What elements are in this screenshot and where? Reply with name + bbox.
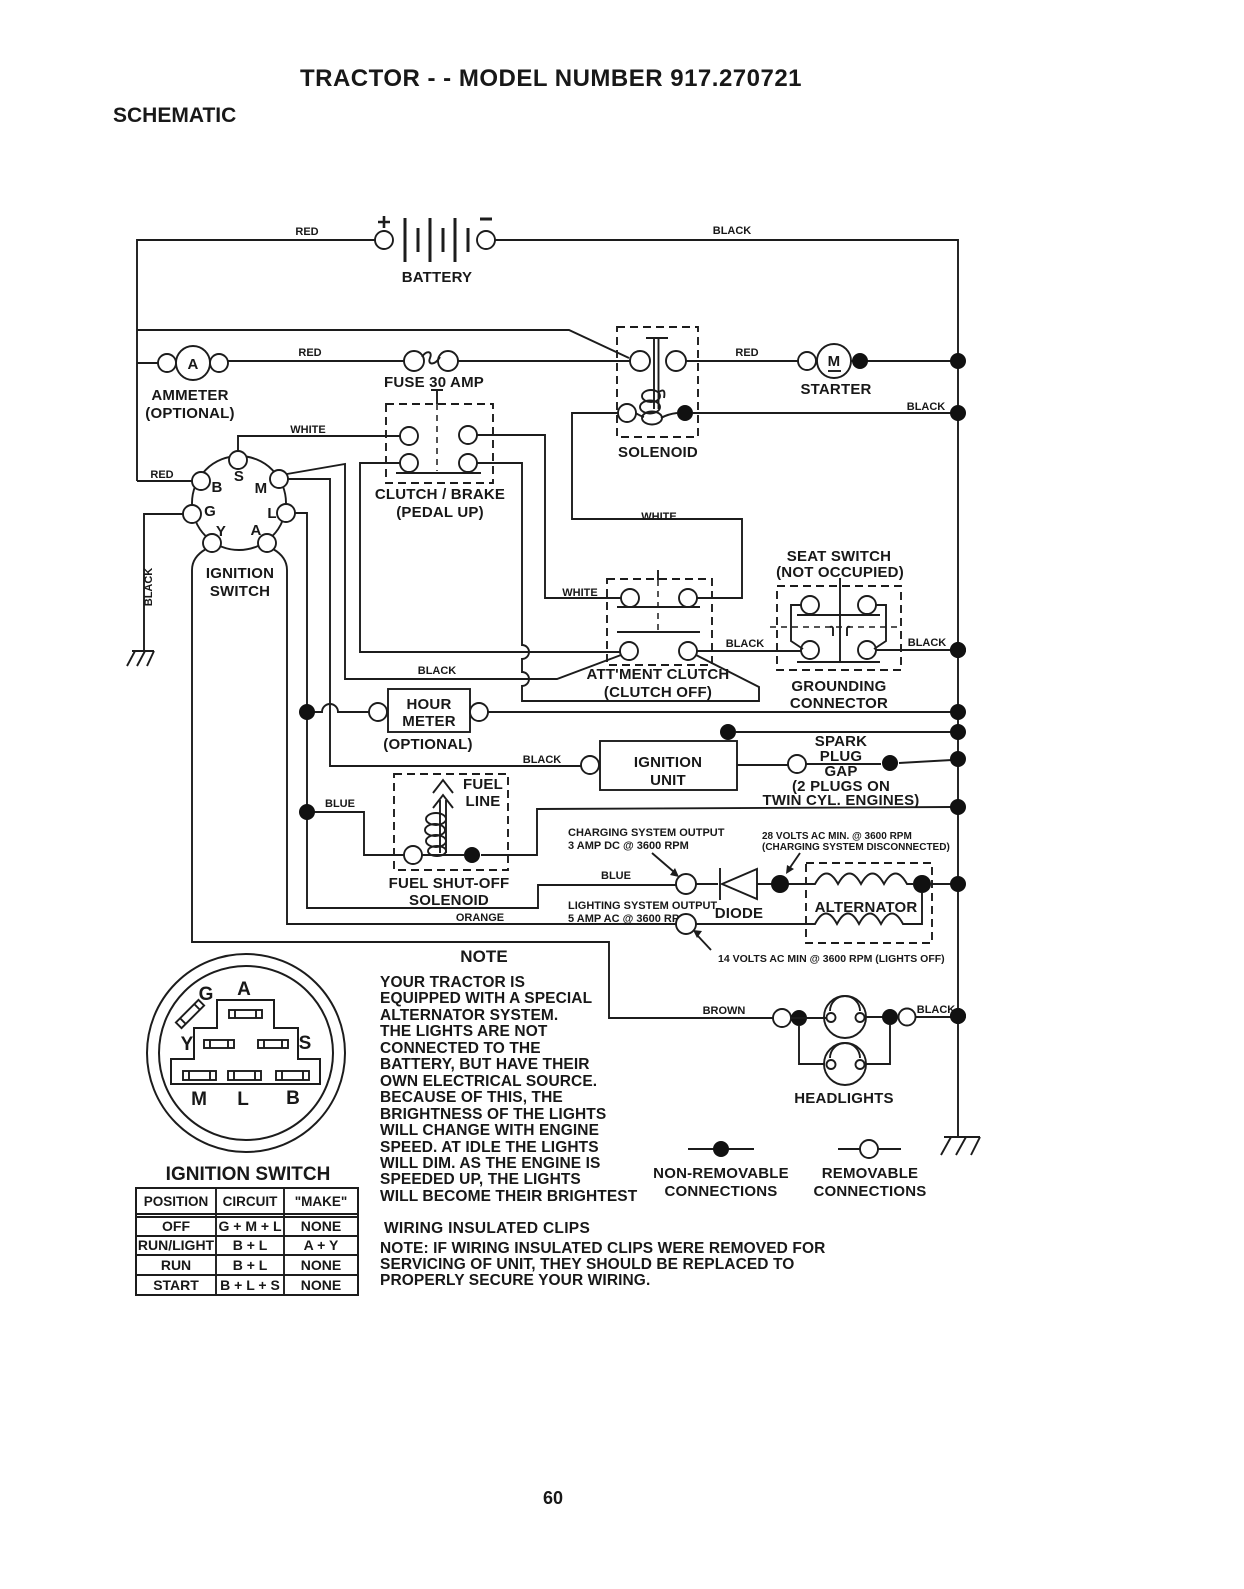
connector pin Y xyxy=(204,1040,234,1048)
svg-text:WHITE: WHITE xyxy=(562,587,597,599)
svg-text:NONE: NONE xyxy=(301,1277,341,1293)
connector pin G (slanted) xyxy=(176,1000,204,1028)
node seat switch to bus (non-removable) xyxy=(950,642,966,658)
svg-text:NOTE: NOTE xyxy=(460,947,508,966)
attment clutch contacts xyxy=(617,589,700,660)
wire battery negative BLACK to right bus and down to ground xyxy=(495,240,958,1136)
ground (right bus) xyxy=(941,1137,980,1155)
ground (ignition switch G) xyxy=(127,651,154,666)
table row RUN/LIGHT xyxy=(138,1237,339,1253)
svg-text:BLACK: BLACK xyxy=(523,754,562,766)
svg-text:OFF: OFF xyxy=(162,1218,190,1234)
note text block xyxy=(380,947,638,1205)
svg-text:START: START xyxy=(153,1277,199,1293)
svg-text:ALTERNATOR SYSTEM.: ALTERNATOR SYSTEM. xyxy=(380,1007,558,1024)
seat switch S3 dashed enclosure xyxy=(777,586,901,670)
starter motor M1 xyxy=(798,344,851,378)
svg-text:B + L: B + L xyxy=(233,1257,268,1273)
svg-text:A: A xyxy=(187,356,198,373)
svg-text:M: M xyxy=(191,1089,207,1110)
label SEAT SWITCH (NOT OCCUPIED) xyxy=(776,548,904,581)
svg-text:(OPTIONAL): (OPTIONAL) xyxy=(145,405,235,422)
svg-text:BLACK: BLACK xyxy=(713,225,752,237)
svg-text:A: A xyxy=(237,979,251,1000)
label SPARK PLUG GAP (2 PLUGS ON TWIN CYL. ENGINES) xyxy=(763,733,920,809)
wire charging output through diode to alternator (BLUE) xyxy=(695,883,812,885)
svg-text:SERVICING OF UNIT, THEY SHOULD: SERVICING OF UNIT, THEY SHOULD BE REPLAC… xyxy=(380,1256,794,1273)
label GROUNDING CONNECTOR xyxy=(790,678,888,712)
node right bus at hour meter (non-removable) xyxy=(950,704,966,720)
svg-text:G + M + L: G + M + L xyxy=(218,1218,281,1234)
fuel line dashed enclosure xyxy=(394,774,508,870)
wire headlight top left xyxy=(791,1017,827,1019)
headlight return terminal (removable) xyxy=(899,1009,916,1026)
svg-text:YOUR TRACTOR IS: YOUR TRACTOR IS xyxy=(380,974,525,991)
svg-text:BLUE: BLUE xyxy=(325,798,355,810)
wire alternator to right bus xyxy=(931,883,952,885)
svg-text:NONE: NONE xyxy=(301,1218,341,1234)
wire headlight lamp 2 branch xyxy=(799,1025,890,1064)
label FUEL LINE xyxy=(463,776,503,810)
headlight lamp 1 xyxy=(824,996,866,1038)
svg-text:RED: RED xyxy=(295,226,318,238)
svg-text:WILL BECOME THEIR BRIGHTEST: WILL BECOME THEIR BRIGHTEST xyxy=(380,1188,638,1205)
svg-text:BLACK: BLACK xyxy=(143,568,155,607)
wire clutch/brake top-right to attment clutch top-left (WHITE) xyxy=(477,435,621,598)
table row START xyxy=(153,1277,341,1293)
svg-text:A + Y: A + Y xyxy=(304,1237,339,1253)
svg-text:WHITE: WHITE xyxy=(641,511,676,523)
svg-text:28 VOLTS AC MIN. @ 3600 RPM: 28 VOLTS AC MIN. @ 3600 RPM xyxy=(762,831,912,842)
connector pin A xyxy=(229,1010,262,1018)
ignition unit U1 xyxy=(581,741,737,790)
wire clutch/brake bottom-right loop around attment clutch (with crossover hops) xyxy=(477,463,759,701)
svg-text:"MAKE": "MAKE" xyxy=(295,1194,348,1209)
svg-text:ATT'MENT CLUTCH: ATT'MENT CLUTCH xyxy=(587,666,730,683)
wire blue tap to fuel shut-off solenoid (BLUE) xyxy=(307,812,404,855)
wire ignition G terminal to ground (BLACK) xyxy=(144,514,183,652)
svg-text:CLUTCH / BRAKE: CLUTCH / BRAKE xyxy=(375,486,505,503)
svg-text:BATTERY, BUT HAVE THEIR: BATTERY, BUT HAVE THEIR xyxy=(380,1056,590,1073)
svg-text:CHARGING SYSTEM OUTPUT: CHARGING SYSTEM OUTPUT xyxy=(568,827,725,839)
label ATT'MENT CLUTCH (CLUTCH OFF) xyxy=(587,666,730,701)
ignition switch terminal M xyxy=(270,470,288,488)
svg-text:TWIN CYL. ENGINES): TWIN CYL. ENGINES) xyxy=(763,792,920,809)
charging output terminal (removable) xyxy=(676,874,696,894)
clutch/brake contacts xyxy=(396,426,481,473)
node right bus at headlights (non-removable) xyxy=(950,1008,966,1024)
wire lighting output into alternator (ORANGE) xyxy=(695,923,813,925)
ignition switch terminal Y xyxy=(203,534,221,552)
headlight feed terminal (removable) xyxy=(773,1009,791,1027)
ammeter A1 (optional) xyxy=(158,346,228,380)
svg-text:EQUIPPED WITH A SPECIAL: EQUIPPED WITH A SPECIAL xyxy=(380,990,592,1007)
wire solenoid to starter (RED) xyxy=(685,360,952,362)
table row OFF xyxy=(162,1218,341,1234)
label CHARGING SYSTEM OUTPUT 3 AMP DC @ 3600 RPM xyxy=(568,827,725,852)
solenoid coil xyxy=(634,390,677,425)
fuel solenoid left terminal (removable) xyxy=(404,846,422,864)
alternator charging winding xyxy=(808,874,913,885)
solenoid K1 dashed enclosure xyxy=(617,327,698,437)
ignition switch terminal letters xyxy=(204,468,277,540)
wire seat switch to right bus (BLACK) xyxy=(876,649,952,651)
node right bus at starter (non-removable) xyxy=(950,353,966,369)
node right bus at fuel output (non-removable) xyxy=(950,799,966,815)
alternator G1 dashed enclosure xyxy=(806,863,932,943)
node spark plug (non-removable) xyxy=(882,755,898,771)
ignition switch terminal L xyxy=(277,504,295,522)
wire solenoid coil output to right bus (BLACK) xyxy=(693,412,952,414)
wire headlight top right xyxy=(866,1016,900,1018)
seat switch left link xyxy=(791,605,803,649)
svg-text:HEADLIGHTS: HEADLIGHTS xyxy=(794,1090,894,1107)
wire battery positive RED loop (left, down, across to solenoid) xyxy=(137,240,629,481)
svg-text:IGNITION: IGNITION xyxy=(634,754,702,771)
svg-text:SCHEMATIC: SCHEMATIC xyxy=(113,104,236,127)
svg-text:(NOT OCCUPIED): (NOT OCCUPIED) xyxy=(776,564,904,581)
node right bus at ignition unit (non-removable) xyxy=(950,724,966,740)
label AMMETER (OPTIONAL) xyxy=(145,387,235,422)
svg-text:PROPERLY SECURE YOUR WIRING.: PROPERLY SECURE YOUR WIRING. xyxy=(380,1272,650,1289)
connector pin B xyxy=(276,1071,309,1080)
battery minus sign xyxy=(480,218,492,221)
svg-text:BLACK: BLACK xyxy=(917,1004,956,1016)
fuel line arrow xyxy=(433,780,453,808)
svg-text:SPEEDED UP, THE LIGHTS: SPEEDED UP, THE LIGHTS xyxy=(380,1171,581,1188)
node starter to bus (non-removable) xyxy=(852,353,868,369)
hour meter P1 (optional) xyxy=(369,689,488,732)
battery positive terminal xyxy=(375,231,393,249)
node right bus at seat switch (non-removable) xyxy=(950,642,966,658)
wire headlight to bus (BLACK) xyxy=(916,1016,952,1018)
svg-text:METER: METER xyxy=(402,713,456,730)
connector pin S xyxy=(258,1040,288,1048)
svg-text:THE LIGHTS ARE NOT: THE LIGHTS ARE NOT xyxy=(380,1023,548,1040)
node right bus at spark plug (non-removable) xyxy=(950,751,966,767)
wire ignition unit to spark plug gap xyxy=(737,760,952,765)
battery negative terminal xyxy=(477,231,495,249)
svg-text:BLACK: BLACK xyxy=(418,665,457,677)
fuel pipe xyxy=(422,800,464,855)
svg-text:LINE: LINE xyxy=(466,793,501,810)
svg-text:NOTE: IF WIRING INSULATED CLIP: NOTE: IF WIRING INSULATED CLIPS WERE REM… xyxy=(380,1240,825,1257)
svg-text:RUN: RUN xyxy=(161,1257,191,1273)
svg-text:RED: RED xyxy=(150,469,173,481)
ignition switch S1 body xyxy=(192,456,286,550)
svg-text:GROUNDING: GROUNDING xyxy=(791,678,886,695)
svg-text:Y: Y xyxy=(181,1034,194,1055)
ignition switch terminal B xyxy=(192,472,210,490)
lighting output terminal (removable) xyxy=(676,914,696,934)
svg-text:ALTERNATOR: ALTERNATOR xyxy=(815,899,918,916)
node ignition unit top (non-removable) xyxy=(720,724,736,740)
svg-text:UNIT: UNIT xyxy=(650,772,686,789)
label FUEL SHUT-OFF SOLENOID xyxy=(389,875,510,909)
alternator lighting winding xyxy=(811,893,922,924)
wire ammeter to fuse to solenoid (RED) xyxy=(228,360,630,362)
svg-text:BLUE: BLUE xyxy=(601,870,631,882)
svg-text:NONE: NONE xyxy=(301,1257,341,1273)
svg-text:IGNITION: IGNITION xyxy=(206,565,274,582)
wire ammeter branch from red bus xyxy=(137,362,158,364)
battery plus sign xyxy=(378,216,390,228)
spark plug gap terminal (removable) xyxy=(788,755,806,773)
svg-text:BECAUSE OF THIS, THE: BECAUSE OF THIS, THE xyxy=(380,1089,563,1106)
node right bus at alternator (non-removable) xyxy=(950,876,966,892)
svg-text:BLACK: BLACK xyxy=(907,401,946,413)
svg-text:DIODE: DIODE xyxy=(715,905,764,922)
svg-text:IGNITION SWITCH: IGNITION SWITCH xyxy=(166,1164,331,1185)
svg-text:FUEL: FUEL xyxy=(463,776,503,793)
wire attment clutch bottom-right to seat switch (BLACK) xyxy=(697,650,801,652)
wire ignition M terminal diagonal to attment clutch bottom-left (BLACK) xyxy=(287,464,621,679)
solenoid coil left terminal xyxy=(618,404,636,422)
label IGNITION SWITCH (schematic) xyxy=(206,565,274,600)
diode D1 xyxy=(720,868,757,900)
label CLUTCH / BRAKE (PEDAL UP) xyxy=(375,486,505,521)
svg-text:WIRING INSULATED CLIPS: WIRING INSULATED CLIPS xyxy=(384,1220,590,1237)
svg-text:L: L xyxy=(267,505,276,522)
svg-text:FUEL SHUT-OFF: FUEL SHUT-OFF xyxy=(389,875,510,892)
attment clutch actuator stem xyxy=(657,570,659,580)
svg-text:BROWN: BROWN xyxy=(703,1005,746,1017)
svg-text:G: G xyxy=(199,984,214,1005)
attment clutch center divider xyxy=(657,580,659,632)
node right bus at solenoid output (non-removable) xyxy=(950,405,966,421)
svg-text:BLACK: BLACK xyxy=(908,637,947,649)
svg-text:M: M xyxy=(255,480,268,497)
arrow charging output xyxy=(652,853,679,877)
ignition switch connector key outline xyxy=(171,1000,320,1084)
connector pin M xyxy=(183,1071,216,1080)
ignition switch terminal S xyxy=(229,451,247,469)
svg-text:WILL DIM. AS THE ENGINE IS: WILL DIM. AS THE ENGINE IS xyxy=(380,1155,600,1172)
node headlight right (non-removable) xyxy=(882,1009,898,1025)
wire hour meter to right bus xyxy=(488,711,952,713)
node fuel solenoid output (non-removable) xyxy=(464,847,480,863)
svg-text:CONNECTIONS: CONNECTIONS xyxy=(813,1183,926,1200)
svg-text:SOLENOID: SOLENOID xyxy=(618,444,698,461)
wiring insulated clips note xyxy=(380,1240,825,1289)
ignition switch terminal G xyxy=(183,505,201,523)
table header row xyxy=(144,1194,348,1209)
svg-text:RED: RED xyxy=(735,347,758,359)
node diode output (non-removable) xyxy=(771,875,789,893)
ignition switch connector outer ring xyxy=(147,954,345,1152)
label REMOVABLE CONNECTIONS xyxy=(813,1165,926,1200)
solenoid coil output node (non-removable) xyxy=(677,405,693,421)
svg-text:S: S xyxy=(234,468,244,485)
svg-text:(CLUTCH OFF): (CLUTCH OFF) xyxy=(604,684,712,701)
wire ignition Y terminal to headlights (BROWN) xyxy=(192,549,773,1018)
connector pin labels xyxy=(181,979,312,1110)
svg-text:3 AMP DC @ 3600 RPM: 3 AMP DC @ 3600 RPM xyxy=(568,840,689,852)
node headlight bus (non-removable) xyxy=(950,1008,966,1024)
svg-text:FUSE 30 AMP: FUSE 30 AMP xyxy=(384,374,484,391)
legend removable connection sample xyxy=(838,1140,901,1158)
svg-text:WHITE: WHITE xyxy=(290,424,325,436)
svg-text:S: S xyxy=(299,1033,312,1054)
svg-text:60: 60 xyxy=(543,1488,563,1508)
wire hour meter tap with hop over M wire xyxy=(307,704,369,712)
svg-text:B + L: B + L xyxy=(233,1237,268,1253)
label LIGHTING SYSTEM OUTPUT 5 AMP AC @ 3600 RPM xyxy=(568,900,717,925)
svg-text:TRACTOR - - MODEL NUMBER 917.2: TRACTOR - - MODEL NUMBER 917.270721 xyxy=(300,65,802,92)
wire clutch/brake bottom-left to attment clutch bottom-left xyxy=(360,463,620,652)
arrow 14 volts xyxy=(693,930,711,950)
svg-text:CONNECTOR: CONNECTOR xyxy=(790,695,888,712)
svg-text:STARTER: STARTER xyxy=(800,381,871,398)
svg-text:BATTERY: BATTERY xyxy=(402,269,473,286)
ignition switch terminal A xyxy=(258,534,276,552)
arrow 28 volts xyxy=(786,853,800,874)
connector pin L xyxy=(228,1071,261,1080)
label NON-REMOVABLE CONNECTIONS xyxy=(653,1165,789,1200)
wire ignition unit top node to right bus xyxy=(736,731,952,733)
svg-text:CONNECTED TO THE: CONNECTED TO THE xyxy=(380,1040,541,1057)
svg-text:RED: RED xyxy=(298,347,321,359)
seat switch contacts xyxy=(797,596,880,662)
svg-text:OWN ELECTRICAL SOURCE.: OWN ELECTRICAL SOURCE. xyxy=(380,1073,597,1090)
wire ignition B terminal to red bus (RED) xyxy=(137,480,192,482)
clutch/brake switch S2 dashed enclosure xyxy=(386,404,493,483)
wire ignition M terminal to ignition unit (BLACK) xyxy=(288,479,581,766)
svg-text:M: M xyxy=(828,353,841,370)
svg-text:LIGHTING SYSTEM OUTPUT: LIGHTING SYSTEM OUTPUT xyxy=(568,900,717,912)
svg-text:ORANGE: ORANGE xyxy=(456,912,504,924)
battery cell plates xyxy=(405,218,468,262)
solenoid contact terminals xyxy=(630,351,686,371)
seat switch actuator stem and prongs xyxy=(830,578,850,662)
fuse F1 30 AMP xyxy=(404,351,458,371)
svg-text:(CHARGING SYSTEM DISCONNECTED): (CHARGING SYSTEM DISCONNECTED) xyxy=(762,842,950,853)
svg-text:L: L xyxy=(237,1089,249,1110)
node alternator output (non-removable) xyxy=(913,875,931,893)
svg-text:Y: Y xyxy=(216,523,226,540)
ignition switch table grid xyxy=(136,1188,358,1295)
seat switch right link xyxy=(874,605,886,649)
svg-text:14 VOLTS AC MIN @ 3600 RPM (L: 14 VOLTS AC MIN @ 3600 RPM (LIGHTS OFF) xyxy=(718,953,945,965)
svg-text:(OPTIONAL): (OPTIONAL) xyxy=(383,736,473,753)
svg-text:B + L + S: B + L + S xyxy=(220,1277,280,1293)
svg-text:CIRCUIT: CIRCUIT xyxy=(223,1194,278,1209)
wire ignition A terminal to lighting output (ORANGE) xyxy=(273,549,677,924)
svg-text:A: A xyxy=(250,522,261,539)
solenoid plunger xyxy=(646,338,668,409)
svg-text:WILL CHANGE WITH ENGINE: WILL CHANGE WITH ENGINE xyxy=(380,1122,599,1139)
seat switch mating line (dashed) xyxy=(770,626,901,628)
wire ignition S terminal to clutch/brake top-left (WHITE) xyxy=(238,436,400,451)
svg-text:SPEED. AT IDLE THE LIGHTS: SPEED. AT IDLE THE LIGHTS xyxy=(380,1139,599,1156)
svg-text:SOLENOID: SOLENOID xyxy=(409,892,489,909)
svg-text:HOUR: HOUR xyxy=(407,696,452,713)
node headlight left (non-removable) xyxy=(791,1010,807,1026)
table row RUN xyxy=(161,1257,341,1273)
svg-text:(PEDAL UP): (PEDAL UP) xyxy=(396,504,484,521)
svg-text:SWITCH: SWITCH xyxy=(210,583,270,600)
svg-text:REMOVABLE: REMOVABLE xyxy=(822,1165,919,1182)
clutch/brake actuator stem xyxy=(431,390,443,404)
svg-text:BLACK: BLACK xyxy=(726,638,765,650)
svg-text:SEAT SWITCH: SEAT SWITCH xyxy=(787,548,891,565)
clutch/brake center divider xyxy=(436,404,438,471)
legend non-removable connection sample xyxy=(688,1141,754,1157)
svg-text:G: G xyxy=(204,503,216,520)
fuel solenoid coil xyxy=(425,813,446,856)
label 28 VOLTS AC MIN @ 3600 RPM (CHARGING SYSTEM DISCONNECTED) xyxy=(762,831,950,853)
svg-text:RUN/LIGHT: RUN/LIGHT xyxy=(138,1237,215,1253)
wire ignition L terminal down to charging circuit (BLUE) xyxy=(295,513,677,908)
headlight lamp 2 xyxy=(824,1043,866,1085)
svg-text:NON-REMOVABLE: NON-REMOVABLE xyxy=(653,1165,789,1182)
wire solenoid to attment clutch top-right (WHITE) xyxy=(572,413,742,598)
svg-text:CONNECTIONS: CONNECTIONS xyxy=(664,1183,777,1200)
svg-text:BRIGHTNESS OF THE LIGHTS: BRIGHTNESS OF THE LIGHTS xyxy=(380,1106,606,1123)
svg-text:AMMETER: AMMETER xyxy=(151,387,228,404)
svg-text:POSITION: POSITION xyxy=(144,1194,209,1209)
svg-text:5 AMP AC @ 3600 RPM: 5 AMP AC @ 3600 RPM xyxy=(568,913,688,925)
attment clutch switch S4 dashed enclosure xyxy=(607,579,712,665)
wire fuel shut-off solenoid output to right bus xyxy=(481,807,952,855)
node hour meter tap (non-removable) xyxy=(299,704,315,720)
svg-text:B: B xyxy=(286,1088,300,1109)
svg-text:B: B xyxy=(211,479,222,496)
node blue tap (non-removable) xyxy=(299,804,315,820)
